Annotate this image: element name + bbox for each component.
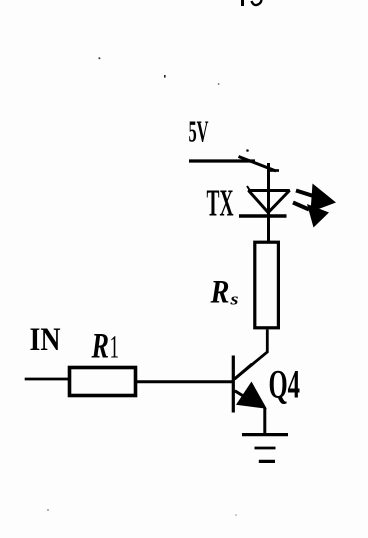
resistor Rs (body) bbox=[255, 242, 279, 328]
svg-text:1: 1 bbox=[110, 330, 120, 366]
wire bend (hand-drawn) from 5V rail to LED anode bbox=[239, 157, 280, 242]
svg-text:5V: 5V bbox=[189, 114, 209, 149]
svg-text:TX: TX bbox=[207, 183, 234, 225]
svg-text:Q4: Q4 bbox=[269, 362, 301, 407]
label Rs bbox=[210, 275, 239, 311]
transistor Q4 bbox=[233, 356, 266, 413]
LED TX (diode triangle + cathode bar) bbox=[239, 186, 290, 216]
wire 5V rail horizontal bbox=[189, 159, 255, 162]
wire emitter to ground bbox=[263, 408, 266, 434]
svg-text:s: s bbox=[229, 289, 239, 308]
wire R1 to transistor base bbox=[137, 380, 233, 383]
wire LED cathode to Rs bbox=[267, 216, 270, 241]
ground bbox=[242, 435, 288, 462]
svg-text:IN: IN bbox=[30, 322, 61, 358]
light emission arrows bbox=[293, 184, 336, 228]
svg-text:R: R bbox=[210, 275, 230, 311]
wire IN to R1 bbox=[25, 378, 69, 381]
wire Rs bottom to transistor collector bbox=[235, 330, 268, 380]
resistor R1 (body) bbox=[70, 368, 136, 396]
scan specks and cropped caption fragment (pre-label area) bbox=[47, 0, 262, 516]
label R1 bbox=[91, 326, 119, 366]
svg-text:R: R bbox=[91, 326, 109, 366]
